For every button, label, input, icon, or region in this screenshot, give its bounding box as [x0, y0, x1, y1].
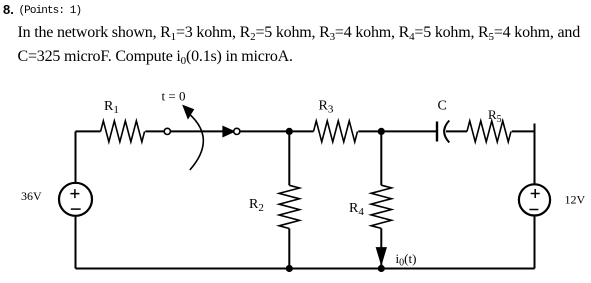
wire R3 to node B	[358, 130, 381, 132]
resistor R5	[467, 121, 511, 142]
12V plus sign	[531, 189, 540, 198]
current arrow i0(t)	[376, 248, 386, 265]
capacitor C right curved plate	[444, 121, 449, 143]
svg-text:R4: R4	[349, 201, 364, 218]
bottom junction dot under R4	[378, 265, 385, 272]
node B junction dot	[378, 128, 385, 135]
svg-text:R3: R3	[319, 99, 334, 116]
capacitor C left plate	[436, 122, 438, 142]
svg-text:i0(t): i0(t)	[396, 251, 417, 269]
wire R5 to top-right corner	[512, 130, 535, 132]
node A junction dot	[286, 128, 293, 135]
switch terminal circle left	[164, 128, 170, 134]
resistor R3	[314, 121, 358, 142]
switch moving contact arrowhead	[223, 126, 235, 136]
svg-text:R1: R1	[104, 99, 119, 116]
svg-text:t = 0: t = 0	[162, 89, 186, 104]
resistor R4	[371, 185, 391, 228]
switch terminal circle right	[234, 128, 240, 134]
resistor R2	[279, 185, 299, 228]
svg-text:12V: 12V	[565, 193, 586, 207]
wire node A to R3	[289, 130, 313, 132]
12V minus sign	[529, 209, 538, 211]
switch arc arrowhead	[183, 106, 194, 119]
wire top-left from corner to R1	[76, 130, 101, 132]
svg-text:R5: R5	[488, 107, 502, 125]
wire node A down to R2	[288, 131, 290, 185]
wire switch terminal to moving arrow	[171, 130, 223, 132]
36V plus sign	[70, 189, 79, 198]
wire node B down to R4	[380, 131, 382, 185]
wire node B to capacitor	[381, 130, 437, 132]
wire switch to node A	[240, 130, 289, 132]
svg-text:C: C	[438, 99, 447, 114]
bottom junction dot under R2	[286, 265, 293, 272]
bottom wire	[76, 268, 535, 270]
wire right vertical upper	[534, 124, 536, 184]
36V minus sign	[71, 208, 81, 210]
resistor R1	[101, 121, 145, 142]
wire right vertical lower	[534, 216, 536, 268]
switch closing arc	[188, 113, 204, 171]
wire R1 to switch terminal	[145, 130, 164, 132]
wire left vertical lower	[75, 217, 77, 269]
wire R4 to bottom with current arrow	[380, 228, 382, 268]
wire capacitor to R5	[446, 130, 467, 132]
voltage source 36V	[59, 183, 92, 216]
wire left vertical upper	[75, 131, 77, 182]
voltage source 12V	[519, 184, 550, 215]
svg-text:36V: 36V	[21, 189, 42, 203]
svg-text:R2: R2	[249, 197, 264, 214]
wire R2 to bottom	[288, 229, 290, 269]
